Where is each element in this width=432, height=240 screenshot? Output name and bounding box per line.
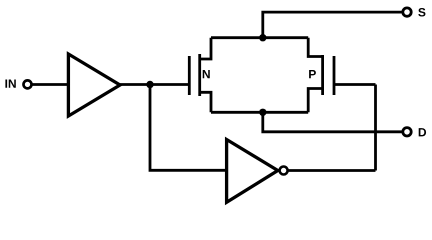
S terminal circle (403, 8, 411, 16)
wire riser up to P gate lead (374, 85, 377, 171)
wire node A down to inverter input (150, 85, 227, 171)
bottom rail wire (D side) (211, 111, 308, 114)
transistor Q2 PMOS label P (309, 70, 316, 78)
IN label (5, 79, 15, 87)
S label (418, 8, 425, 17)
wire inverter output to P gate riser (288, 169, 376, 172)
transistor Q2 PMOS channel bar (321, 55, 324, 95)
buffer U1 (non-inverting driver triangle) (68, 54, 120, 116)
node S-rail junction dot (259, 34, 266, 41)
transistor Q2 PMOS drain lead (bottom stub down to bottom rail) (308, 89, 322, 113)
node A junction dot (buffer output) (146, 81, 153, 88)
transistor Q1 NMOS label N (203, 70, 210, 78)
transistor Q2 PMOS gate bar (333, 56, 336, 95)
wire D branch down and right to D terminal (263, 112, 402, 132)
inverter U2 triangle (227, 140, 278, 203)
IN terminal circle (24, 80, 32, 88)
transistor Q1 NMOS source lead (bottom stub down to bottom rail) (200, 92, 211, 112)
node D-rail junction dot (259, 109, 266, 116)
wire S branch up and right to S terminal (263, 12, 402, 38)
transistor Q2 PMOS source lead (top stub from top rail) (308, 38, 322, 57)
D terminal circle (403, 128, 411, 136)
transistor Q1 NMOS drain lead (top stub up to top rail) (200, 38, 211, 59)
inverter U2 output bubble (280, 167, 288, 175)
top rail wire (S side) (211, 36, 308, 39)
transistor Q1 NMOS channel bar (198, 54, 201, 96)
wire P gate lead (334, 83, 376, 86)
D label (419, 128, 426, 136)
wire IN terminal to buffer input (32, 83, 68, 86)
wire buffer output to N gate (120, 83, 189, 86)
transistor Q1 NMOS gate bar (188, 56, 191, 95)
